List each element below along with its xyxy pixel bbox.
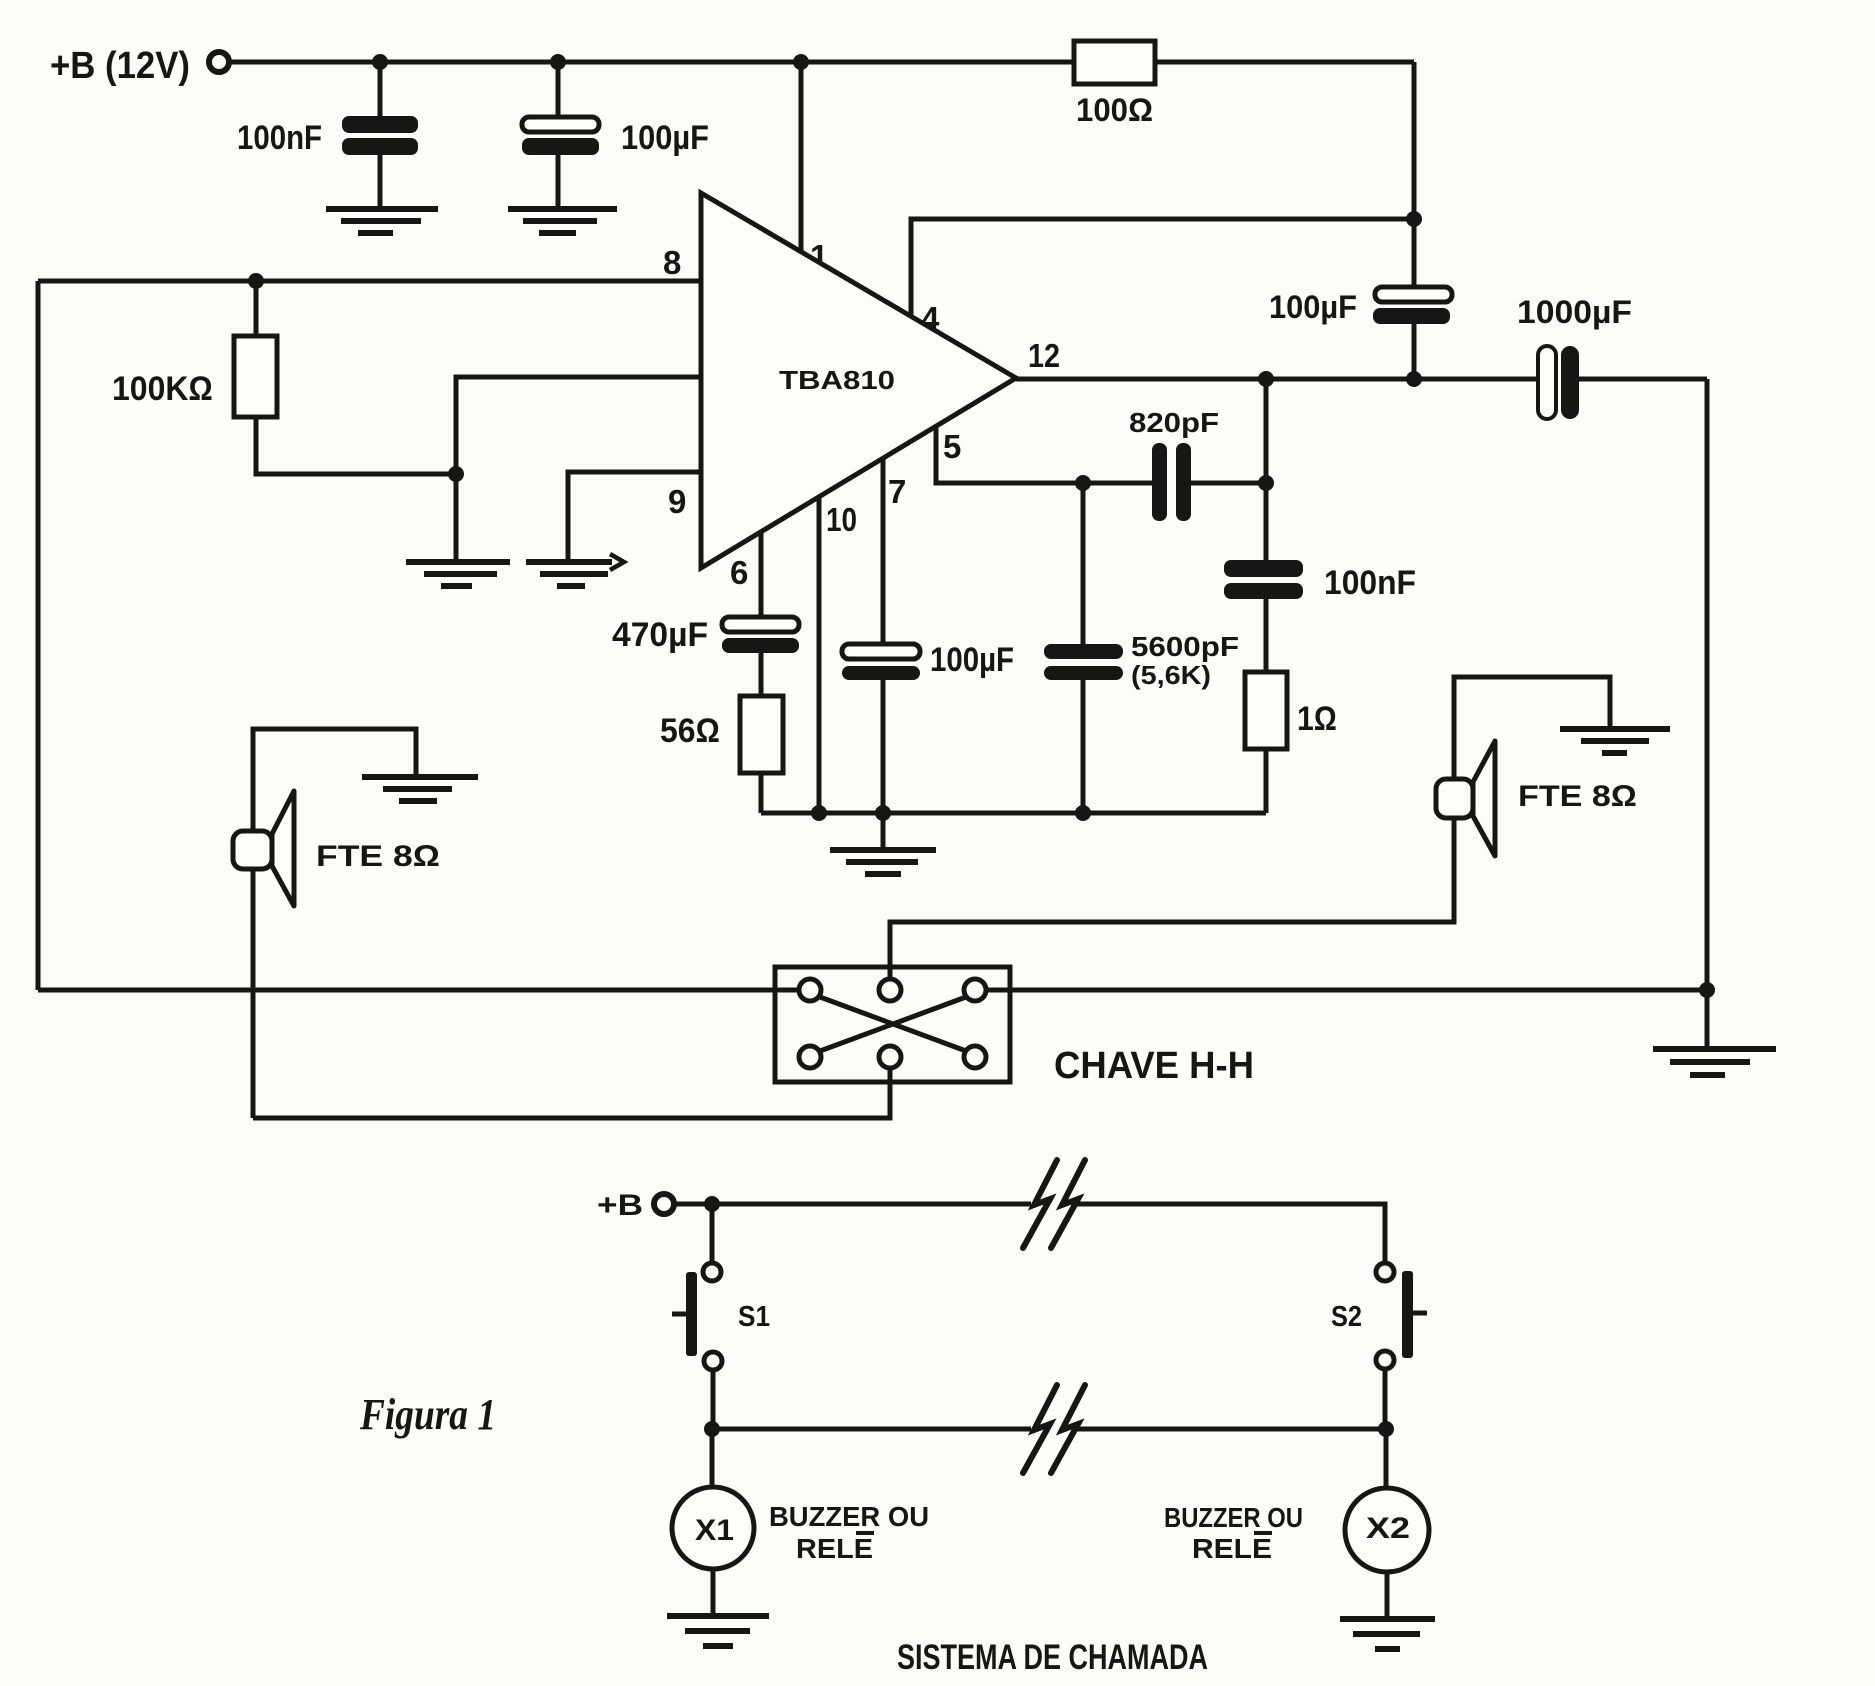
wire pin 10 [819,497,857,813]
buzzer X1 [672,1429,754,1614]
wire pin 5 [936,426,1266,483]
svg-text:SISTEMA DE CHAMADA: SISTEMA DE CHAMADA [897,1638,1208,1677]
svg-text:BUZZER OU: BUZZER OU [1164,1502,1303,1533]
wire speaker return (left) [38,988,797,993]
svg-text:+B (12V): +B (12V) [50,45,190,87]
speaker LS2 FTE 8ohm [1436,741,1637,856]
wire LS1 bottom [251,869,256,1118]
op-amp U1 TBA810 [701,193,1016,568]
svg-text:100µF: 100µF [1269,289,1357,325]
wire break symbol bottom [1023,1385,1085,1473]
wire ground bus [761,811,1266,816]
pin chave top-right [964,979,986,1001]
svg-text:5: 5 [943,428,961,465]
node output/C3 [1406,371,1422,387]
svg-text:100KΩ: 100KΩ [112,370,213,408]
node feedback junction [448,466,464,482]
svg-text:TBA810: TBA810 [779,365,895,395]
svg-text:100nF: 100nF [1324,564,1416,602]
svg-text:S1: S1 [738,1301,770,1333]
ground G7 [667,1616,769,1646]
pin chave top-left [799,979,821,1001]
capacitor C9 5600pF [1044,631,1239,690]
wire feedback to triangle edge [456,377,701,474]
wire pin 12 output [1016,337,1707,379]
svg-text:1000µF: 1000µF [1517,294,1632,330]
capacitor C4 1000uF [1517,294,1632,419]
pin chave top-center [879,979,901,1001]
wire stem ground G4 [881,813,886,848]
svg-text:56Ω: 56Ω [660,712,720,750]
capacitor C5 820pF [1129,407,1219,521]
node X2 junction [1378,1421,1394,1437]
wire pin 9 [568,472,701,560]
node bus 5600pF [1075,805,1091,821]
ground under C2 [508,209,617,233]
pin chave bottom-right [964,1046,986,1068]
svg-text:100µF: 100µF [621,119,709,157]
wire right output vertical [1705,379,1710,1047]
resistor R2 100K [112,281,456,474]
svg-text:BUZZER OU: BUZZER OU [769,1501,929,1532]
svg-text:12: 12 [1028,337,1060,374]
svg-text:1Ω: 1Ω [1297,700,1337,738]
pin chave bottom-left [799,1046,821,1068]
switch chave H-H box [775,967,1254,1087]
svg-text:Figura 1: Figura 1 [359,1390,496,1439]
wire chave bottom to LS1 [253,1070,890,1118]
buzzer X2 [1345,1429,1429,1617]
wire pin 4 [911,219,1414,337]
ground G1 [406,562,510,586]
wire bottom supply [675,1204,1385,1264]
capacitor C6 100nF [1224,560,1416,602]
node top rail junction at C1 [372,54,388,70]
wire pin 8 input [38,244,701,281]
resistor R4 1ohm [1245,672,1337,749]
svg-text:S2: S2 [1331,1301,1362,1333]
svg-text:FTE 8Ω: FTE 8Ω [316,840,440,873]
wire pin 1 [801,62,828,275]
wire LS1 top to ground [253,729,416,831]
svg-text:820pF: 820pF [1129,407,1219,438]
node +B junction [704,1196,720,1212]
ground G6 [1560,729,1670,753]
resistor R3 56ohm [660,696,783,773]
ground G8 [1340,1619,1435,1649]
node output/820pF [1258,371,1274,387]
wire LS2 top to ground [1454,677,1610,779]
ground G3 [1653,1049,1776,1075]
svg-text:X1: X1 [695,1514,734,1547]
wire top supply rail [229,60,1414,65]
wire pin 6 [730,531,761,813]
label buzzer X2 [1164,1502,1303,1564]
capacitor C1 100nF [237,62,418,206]
wire to ground G1 [454,474,459,560]
terminal +B (12V) [50,45,229,87]
switch S1 [672,1204,770,1429]
wire pin 7 [883,458,906,813]
svg-text:470µF: 470µF [612,616,708,654]
svg-text:100Ω: 100Ω [1076,92,1153,128]
wire snubber vertical [1264,379,1269,813]
svg-text:6: 6 [730,554,748,591]
node 820pF right [1258,475,1274,491]
svg-text:8: 8 [663,244,681,281]
svg-text:X2: X2 [1366,1512,1410,1545]
wire right feedback vertical [1412,62,1417,379]
node pin5/5600pF [1075,475,1091,491]
node right vertical / chave [1699,982,1715,998]
node pin8/R2 junction [248,273,264,289]
node top rail junction at C2 [550,54,566,70]
svg-text:100µF: 100µF [930,641,1014,679]
wire break symbol top [1023,1160,1085,1248]
wire left vertical bus [36,281,41,990]
ground G2 with arrow [526,554,624,586]
label buzzer X1 [769,1501,929,1564]
wire chave cross links [820,997,966,1051]
wire chave top-center to LS2 [890,818,1454,978]
node top rail junction at pin1 [793,54,809,70]
svg-text:FTE 8Ω: FTE 8Ω [1518,780,1637,813]
svg-text:5600pF: 5600pF [1131,631,1239,662]
ground under C1 [326,209,438,233]
speaker LS1 FTE 8ohm [233,791,440,906]
svg-text:RELE: RELE [796,1533,873,1564]
capacitor C8 100uF [842,641,1014,680]
svg-text:9: 9 [668,483,686,520]
wire chave top-right to output [987,988,1707,993]
capacitor C3 100uF [1269,287,1452,325]
svg-text:(5,6K): (5,6K) [1131,660,1211,690]
ground G4 [830,850,936,874]
wire middle link [712,1427,1386,1432]
switch S2 [1331,1263,1427,1429]
capacitor C7 470uF [612,616,799,654]
svg-text:10: 10 [826,501,857,538]
svg-text:RELE: RELE [1192,1533,1272,1564]
resistor R1 100ohm [1074,41,1155,128]
node bus pin10 [811,805,827,821]
ground G5 [362,777,478,801]
node X1 junction [704,1421,720,1437]
node junction pin4/R1 [1406,211,1422,227]
wire 5600pF branch [1081,483,1086,813]
svg-text:100nF: 100nF [237,119,322,157]
svg-text:7: 7 [888,473,906,510]
node bus pin7 [875,805,891,821]
svg-text:+B: +B [597,1189,643,1222]
svg-text:CHAVE H-H: CHAVE H-H [1054,1045,1254,1087]
terminal +B (bottom) [597,1189,674,1222]
pin chave bottom-center [879,1046,901,1068]
capacitor C2 100uF [522,62,709,206]
